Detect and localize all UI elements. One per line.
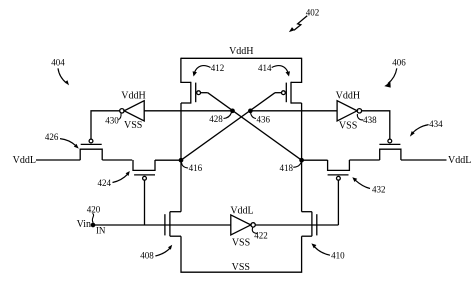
wire 426 to 424	[102, 159, 132, 161]
label 422 with leader	[252, 227, 267, 241]
label 402 with zigzag arrow	[289, 8, 319, 32]
wire cross-couple gate412 to node418	[208, 93, 302, 161]
svg-text:VddL: VddL	[448, 155, 471, 166]
wire inverter430 input line	[144, 110, 232, 112]
svg-text:418: 418	[279, 163, 293, 173]
svg-text:412: 412	[211, 63, 225, 73]
wire left drain vertical (node 416 column)	[180, 103, 182, 212]
wire IN line from Vin to inverter 422 input	[93, 224, 231, 226]
wire node 418 to 432	[302, 159, 328, 161]
svg-text:434: 434	[429, 119, 443, 129]
label 426 with arrow	[45, 132, 79, 149]
wire cross-couple gate414 to node416	[181, 93, 275, 161]
svg-text:VddH: VddH	[336, 90, 360, 101]
wire inverter430 output to gate of 426	[91, 111, 120, 139]
svg-text:436: 436	[257, 114, 271, 124]
svg-text:426: 426	[45, 132, 59, 142]
wire 424 to node 416	[155, 159, 181, 161]
transistor Q410 (NMOS)	[302, 212, 317, 237]
wire 432 to 434	[349, 159, 379, 161]
label 414 with arrow	[258, 63, 290, 77]
wire 434 to VddL right terminal	[401, 159, 447, 161]
svg-text:406: 406	[392, 58, 406, 68]
svg-text:422: 422	[254, 231, 268, 241]
label 432 with arrow	[352, 177, 385, 194]
svg-text:402: 402	[306, 8, 320, 18]
wire VddH to pmos 414 source	[291, 58, 302, 83]
svg-text:408: 408	[140, 251, 154, 261]
wire VSS box	[181, 236, 302, 272]
wire right drain vertical (node 418 column)	[301, 103, 303, 212]
node 416 junction dot	[179, 159, 182, 162]
svg-text:VSS: VSS	[339, 120, 357, 131]
label 406 with arrow	[384, 58, 406, 88]
node 428 junction dot	[231, 109, 234, 112]
label 408 with arrow	[140, 245, 172, 261]
label 434 with arrow	[410, 119, 443, 137]
svg-text:VddL: VddL	[230, 205, 253, 216]
svg-text:404: 404	[51, 58, 65, 68]
label 436 with leader	[251, 113, 271, 125]
svg-text:VSS: VSS	[232, 262, 250, 273]
inverter U430	[120, 101, 144, 121]
label 438 with leader	[357, 114, 377, 125]
svg-text:420: 420	[87, 205, 101, 215]
wire VddL terminal to 426	[36, 159, 80, 161]
transistor Q432 (PMOS pass)	[328, 160, 350, 225]
node VddH rail	[181, 57, 302, 59]
transistor Q414 (PMOS)	[275, 82, 302, 104]
transistor Q424 (PMOS pass)	[133, 160, 155, 225]
node Vin terminal dot	[91, 223, 94, 226]
inverter U438	[337, 101, 361, 121]
svg-text:428: 428	[209, 114, 223, 124]
wire VddH to pmos 412 source	[181, 58, 191, 83]
label 412 with arrow	[193, 63, 225, 77]
label 404 with arrow	[51, 58, 69, 86]
svg-text:410: 410	[331, 250, 345, 260]
svg-text:438: 438	[363, 115, 377, 125]
label 428 with leader	[209, 113, 231, 125]
transistor Q412 (PMOS)	[181, 82, 208, 104]
svg-text:424: 424	[98, 178, 112, 188]
label 420 with squiggle leader	[87, 205, 101, 223]
svg-text:VddL: VddL	[13, 155, 36, 166]
svg-text:VddH: VddH	[121, 90, 145, 101]
label 410 with arrow	[311, 243, 345, 260]
svg-text:432: 432	[372, 185, 386, 195]
wire inverter438 input line	[250, 110, 337, 112]
svg-text:414: 414	[258, 63, 272, 73]
inverter U422	[231, 215, 256, 235]
svg-text:416: 416	[189, 163, 203, 173]
svg-text:VSS: VSS	[124, 120, 142, 131]
node 418 junction dot	[300, 159, 303, 162]
svg-text:430: 430	[105, 116, 119, 126]
label 424 with arrow	[98, 171, 130, 188]
svg-text:Vin: Vin	[77, 219, 91, 230]
node 436 junction dot	[249, 109, 252, 112]
svg-text:VSS: VSS	[232, 238, 250, 249]
transistor Q426 (PMOS pass)	[80, 139, 102, 160]
label 416 with leader	[182, 163, 203, 174]
transistor Q408 (NMOS)	[165, 212, 181, 237]
wire inverter422 output to gates of 410 and 432	[255, 224, 338, 226]
wire inverter438 output to gate of 434	[362, 111, 390, 139]
label 418 with leader	[279, 163, 301, 173]
transistor Q434 (PMOS pass)	[379, 139, 401, 160]
svg-text:VddH: VddH	[229, 46, 253, 57]
svg-text:IN: IN	[96, 226, 106, 236]
label 430 with leader	[105, 113, 121, 125]
